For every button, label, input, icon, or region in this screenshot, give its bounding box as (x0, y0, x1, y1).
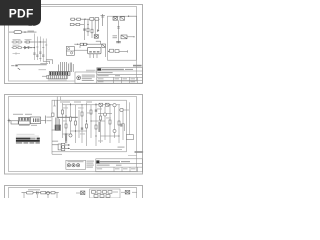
capacitor C2 (33, 53, 35, 54)
node G junction (133, 36, 134, 37)
wire stub to connector (39, 69, 47, 71)
wire (76, 192, 81, 194)
dark bus segment (98, 122, 100, 132)
resistor R34 (108, 191, 112, 194)
resistor R20 (70, 117, 72, 121)
title text rows page 1 (98, 72, 135, 82)
stamp text lines (82, 75, 95, 81)
net label +V (29, 25, 36, 26)
transistor Q1 (94, 35, 98, 39)
sheet number text page 2 (135, 151, 144, 153)
switch SW1 (11, 65, 47, 70)
stamp box page 2 (66, 160, 86, 169)
transistor Q3 (113, 17, 118, 20)
wire (127, 36, 134, 38)
wire (121, 191, 125, 193)
wire bottom run in main box (70, 148, 122, 150)
node A junction (24, 31, 25, 32)
resistor R24 (90, 110, 92, 114)
wire (119, 50, 128, 52)
relay K2 (88, 47, 101, 54)
resistor R30 (51, 192, 55, 194)
label text inside box top (60, 102, 92, 103)
resistor R36 (100, 195, 104, 198)
transistor Q9 (47, 191, 50, 194)
label blob at elbow (120, 124, 122, 127)
wire (42, 75, 47, 77)
diode D2 (97, 29, 99, 32)
resistor R27 (109, 120, 111, 124)
node F junction (128, 16, 129, 17)
resistor R25 (95, 125, 97, 129)
amplifier block U1 (108, 16, 137, 60)
stub top-left in box (53, 100, 56, 106)
label text right of tick (46, 117, 51, 122)
resistor R12 (80, 43, 83, 45)
page 3 inner drawing frame (9, 188, 137, 199)
connector shell J3 (11, 121, 18, 124)
wire elbow below box (52, 152, 62, 154)
bus wire (thick) (57, 100, 77, 117)
wire (70, 24, 84, 26)
node I junction (77, 44, 78, 45)
wire horizontals inside main box (63, 105, 130, 136)
wire (80, 46, 106, 58)
wire bus vertical comb (34, 34, 46, 64)
transistor Q9a (103, 113, 106, 116)
wire (34, 41, 47, 43)
PDF badge (0, 0, 41, 26)
label text left of Q5 (113, 35, 118, 38)
resistor R8 (70, 23, 74, 25)
wire stub row3 (13, 52, 21, 55)
stamp emblem 2 (72, 164, 75, 167)
title text rows page 2 (97, 165, 136, 170)
transistor Q8 (120, 108, 123, 111)
stub wire with cap (101, 14, 105, 26)
resistor R13 (84, 43, 87, 45)
stamp emblem 1 (67, 164, 70, 167)
node B junction (40, 41, 41, 42)
wire (70, 18, 100, 20)
resistor R17 (115, 50, 119, 53)
resistor R33 (103, 191, 107, 194)
wire (74, 43, 102, 45)
wire right of main box (122, 124, 124, 131)
transistor Q5 (99, 103, 103, 106)
page 3 outer border frame (5, 186, 143, 199)
transistor Q11 (125, 190, 130, 194)
filter block FL1 (30, 117, 40, 124)
page 1 inner drawing frame (9, 7, 137, 82)
logo Elcomp page 1 (97, 68, 101, 70)
svg-text:PDF: PDF (9, 6, 34, 20)
wire tick (44, 116, 46, 124)
transformer T1 (dark hatched) (52, 118, 61, 131)
comb rung marks (36, 45, 47, 59)
label near box bottom right (118, 147, 125, 148)
page 2 inner drawing frame (9, 97, 137, 172)
transistor Q5a (121, 35, 127, 39)
wire verticals inside main box (63, 103, 124, 146)
resistor R9 (76, 23, 80, 25)
resistor R5 (77, 18, 81, 20)
relay K3 (26, 191, 33, 194)
label smudges in main box (63, 108, 111, 142)
wire bus of transistor stage (85, 19, 99, 40)
notes text block page 2 (86, 161, 94, 168)
capacitor C6 (83, 29, 86, 30)
stamp text row (68, 161, 84, 162)
approval stamp box page 1 (75, 72, 97, 83)
wire (96, 41, 101, 44)
page 2 outer border frame (5, 95, 143, 175)
resistor R1 (12, 41, 23, 43)
stamp emblem 3 (77, 164, 80, 167)
wire page 3 (22, 192, 59, 194)
resistor R21 (75, 121, 77, 125)
transistor Q4 (120, 17, 125, 20)
capacitor C5 (42, 55, 44, 56)
capacitor C1 (27, 46, 31, 49)
stamp emblem (77, 76, 81, 80)
main circuit box page 2 (52, 100, 126, 152)
resistor R35 (94, 195, 98, 198)
resistor R23 (86, 124, 88, 128)
node D junction (84, 19, 85, 20)
junction dots output stage (68, 144, 69, 149)
capacitor C9 (81, 128, 83, 129)
resistor R22 (81, 112, 83, 116)
USB plug P1 (8, 119, 11, 123)
resistor R28 (118, 121, 120, 125)
relay K2 inner contacts (89, 51, 99, 53)
capacitor C12 (36, 191, 38, 194)
node E junction (87, 24, 88, 25)
wire stub near title (128, 155, 137, 157)
wire pins above stamp (70, 63, 73, 73)
wire (41, 119, 46, 121)
relay K4 right of box (126, 135, 133, 140)
resistor R29 (41, 192, 46, 194)
wire (132, 191, 137, 193)
resistor R31 (92, 191, 96, 194)
resistor R19 (65, 124, 67, 128)
resistor R2 (12, 47, 23, 49)
logo Elcomp page 2 (96, 160, 99, 163)
capacitor C8 (65, 134, 67, 135)
capacitor C10 (95, 110, 97, 111)
connector J1 body (49, 72, 70, 76)
wire (9, 31, 37, 33)
label text page 3 (28, 189, 40, 190)
connector J2 (66, 46, 74, 55)
wire (28, 47, 34, 49)
relay K1 (14, 31, 22, 34)
net label text right of K1 (28, 31, 35, 32)
resistor R6 (90, 18, 94, 21)
transistor Q2 (102, 44, 106, 47)
resistor R11 (91, 29, 93, 33)
resistor R4 (71, 18, 75, 20)
transistor Q9c (69, 134, 72, 137)
wire vertical to frame (128, 102, 130, 134)
resistor R3 (24, 41, 34, 43)
IC block U2 page 3 (90, 189, 120, 198)
resistor R7 (95, 18, 99, 21)
transistor Q6 (106, 103, 110, 106)
diode D1 (23, 46, 28, 48)
pickup coil L1 on left edge (52, 113, 55, 117)
node J junction (87, 44, 88, 45)
output stage parts lower-left of box (52, 136, 70, 151)
junction dots in main box (65, 104, 119, 136)
resistor R16 (110, 49, 114, 52)
sheet number text page 1 (133, 65, 142, 67)
connector J1 pin wires (59, 62, 69, 72)
transistor Q7 (113, 104, 116, 107)
wire (113, 191, 118, 193)
resistor R26 (100, 116, 102, 120)
capacitor C3 (36, 55, 38, 56)
resistor R32 (97, 191, 101, 194)
node H junction (108, 51, 109, 52)
wire ticks on vertical (117, 27, 119, 28)
node C junction (34, 47, 35, 48)
connector body J4 with pins (19, 117, 30, 124)
pin number text under connector (48, 79, 67, 80)
page 1 outer border frame (5, 5, 143, 84)
value label text row1 (13, 39, 32, 45)
pin number text below connector (19, 125, 37, 126)
revision table (dark) page 2 (16, 134, 40, 144)
wire drops page 3 (24, 193, 57, 198)
label text above connector (13, 114, 32, 115)
wire (128, 15, 137, 17)
transistor Q10 (81, 191, 85, 195)
transistor Q9b (113, 129, 116, 132)
wire (118, 20, 120, 43)
wire tick (127, 50, 129, 52)
resistor R10 (87, 28, 89, 32)
capacitor C4 (39, 52, 41, 53)
wire (74, 49, 87, 51)
wire step to connector (40, 60, 52, 64)
wire risers to frame (57, 97, 60, 101)
title block page 2 (96, 159, 143, 172)
resistor R18 (62, 110, 64, 114)
resistor R37 (106, 195, 110, 198)
small text block above stamp page 1 (86, 70, 96, 73)
capacitor C7 (116, 42, 121, 43)
connector J1 pin-number row (47, 75, 68, 78)
title block page 1 (97, 68, 143, 84)
